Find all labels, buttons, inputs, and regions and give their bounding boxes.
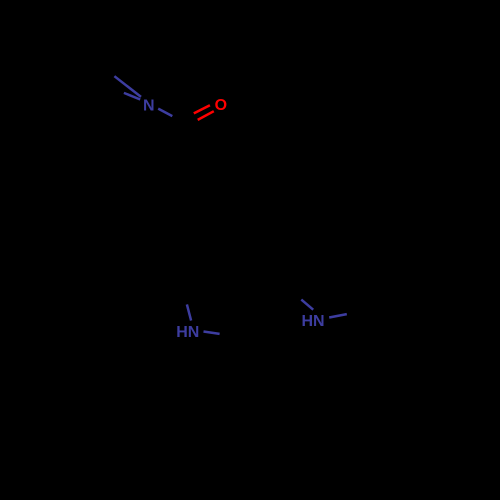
bond C=N inner line (imine) xyxy=(124,93,140,100)
bond C2-N half-bond (left pyrrole) xyxy=(187,304,191,320)
bond C=O main line (carbonyl) xyxy=(198,111,214,120)
svg-text:O: O xyxy=(215,97,227,114)
svg-text:N: N xyxy=(143,97,155,114)
bond C=N main line (imine) xyxy=(114,76,141,97)
bond C3-N half-bond (right pyrrole) xyxy=(301,300,313,310)
svg-text:HN: HN xyxy=(301,313,324,330)
bond N-C(=O) half-bond xyxy=(158,109,172,117)
bond N-C5 half-bond (left pyrrole) xyxy=(204,332,220,334)
bond N-C5 half-bond (right pyrrole) xyxy=(329,314,347,317)
svg-text:HN: HN xyxy=(176,324,199,341)
bond C=O inner line (carbonyl) xyxy=(194,105,210,113)
